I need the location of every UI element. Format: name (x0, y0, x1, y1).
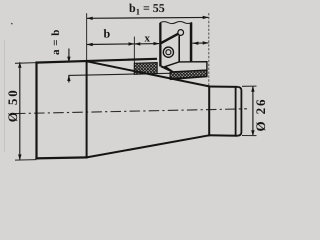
big cylinder left edge (35, 62, 37, 159)
small cylinder bottom edge (208, 134, 237, 137)
taper top line (87, 61, 210, 86)
body plate with pointed jaw (white) (165, 62, 207, 72)
D50 extension lines (15, 62, 37, 65)
svg-text:x: x (145, 33, 151, 45)
right hatched strip (170, 70, 207, 79)
faint scan streak at left edge (4, 40, 6, 152)
svg-text:Ø 26: Ø 26 (253, 98, 268, 132)
ruler line (horizontal reference resting line) (68, 73, 170, 75)
paper background (0, 0, 271, 163)
right post of fixture (190, 23, 193, 63)
svg-text:b1 = 55: b1 = 55 (129, 1, 165, 17)
roller double circle (163, 47, 173, 57)
dimension line b1 (87, 16, 208, 19)
extension line b1/b left (x=86.6) (86, 13, 88, 60)
speck (scan dot) top-left (11, 23, 13, 25)
dimension a=b vertical line (68, 49, 70, 83)
centerline (dash-dot axis) (15, 109, 247, 114)
svg-text:a = b: a = b (50, 29, 62, 55)
extension line x dimension (x=134.4) (133, 37, 135, 63)
middle post under pivot (178, 35, 180, 62)
dimension D26 line (252, 86, 254, 136)
wavy break line joining posts (160, 22, 192, 24)
dimension line right of posts (192, 42, 208, 44)
left post of fixture (159, 23, 161, 67)
left hatched block (134, 63, 157, 75)
pivot circle (178, 30, 184, 36)
panel bottom edge (thick diagonal) (161, 66, 174, 72)
dimension line b and x (87, 43, 159, 46)
plate right edge continued down (206, 70, 208, 77)
end cap inner line (235, 87, 237, 136)
D26 extension lines (242, 85, 257, 87)
extension line b1 right (dashed, from step corner up to b1 line) (208, 13, 210, 86)
step at cone big end (86, 61, 88, 159)
end cap outer outline with rounded corners (238, 87, 242, 136)
taper bottom line (87, 135, 210, 157)
right hatched strip bottom edge (thick) (170, 76, 207, 79)
cylinder top edge extended (35, 59, 157, 63)
svg-text:b: b (104, 27, 111, 41)
lever arm (161, 34, 179, 44)
small cylinder top edge (208, 86, 237, 88)
step at cone small end (208, 86, 210, 137)
dimension D50 line (19, 62, 21, 160)
big cylinder bottom edge (35, 157, 87, 158)
white panel under roller between posts (160, 56, 181, 72)
svg-text:Ø 50: Ø 50 (5, 88, 20, 122)
